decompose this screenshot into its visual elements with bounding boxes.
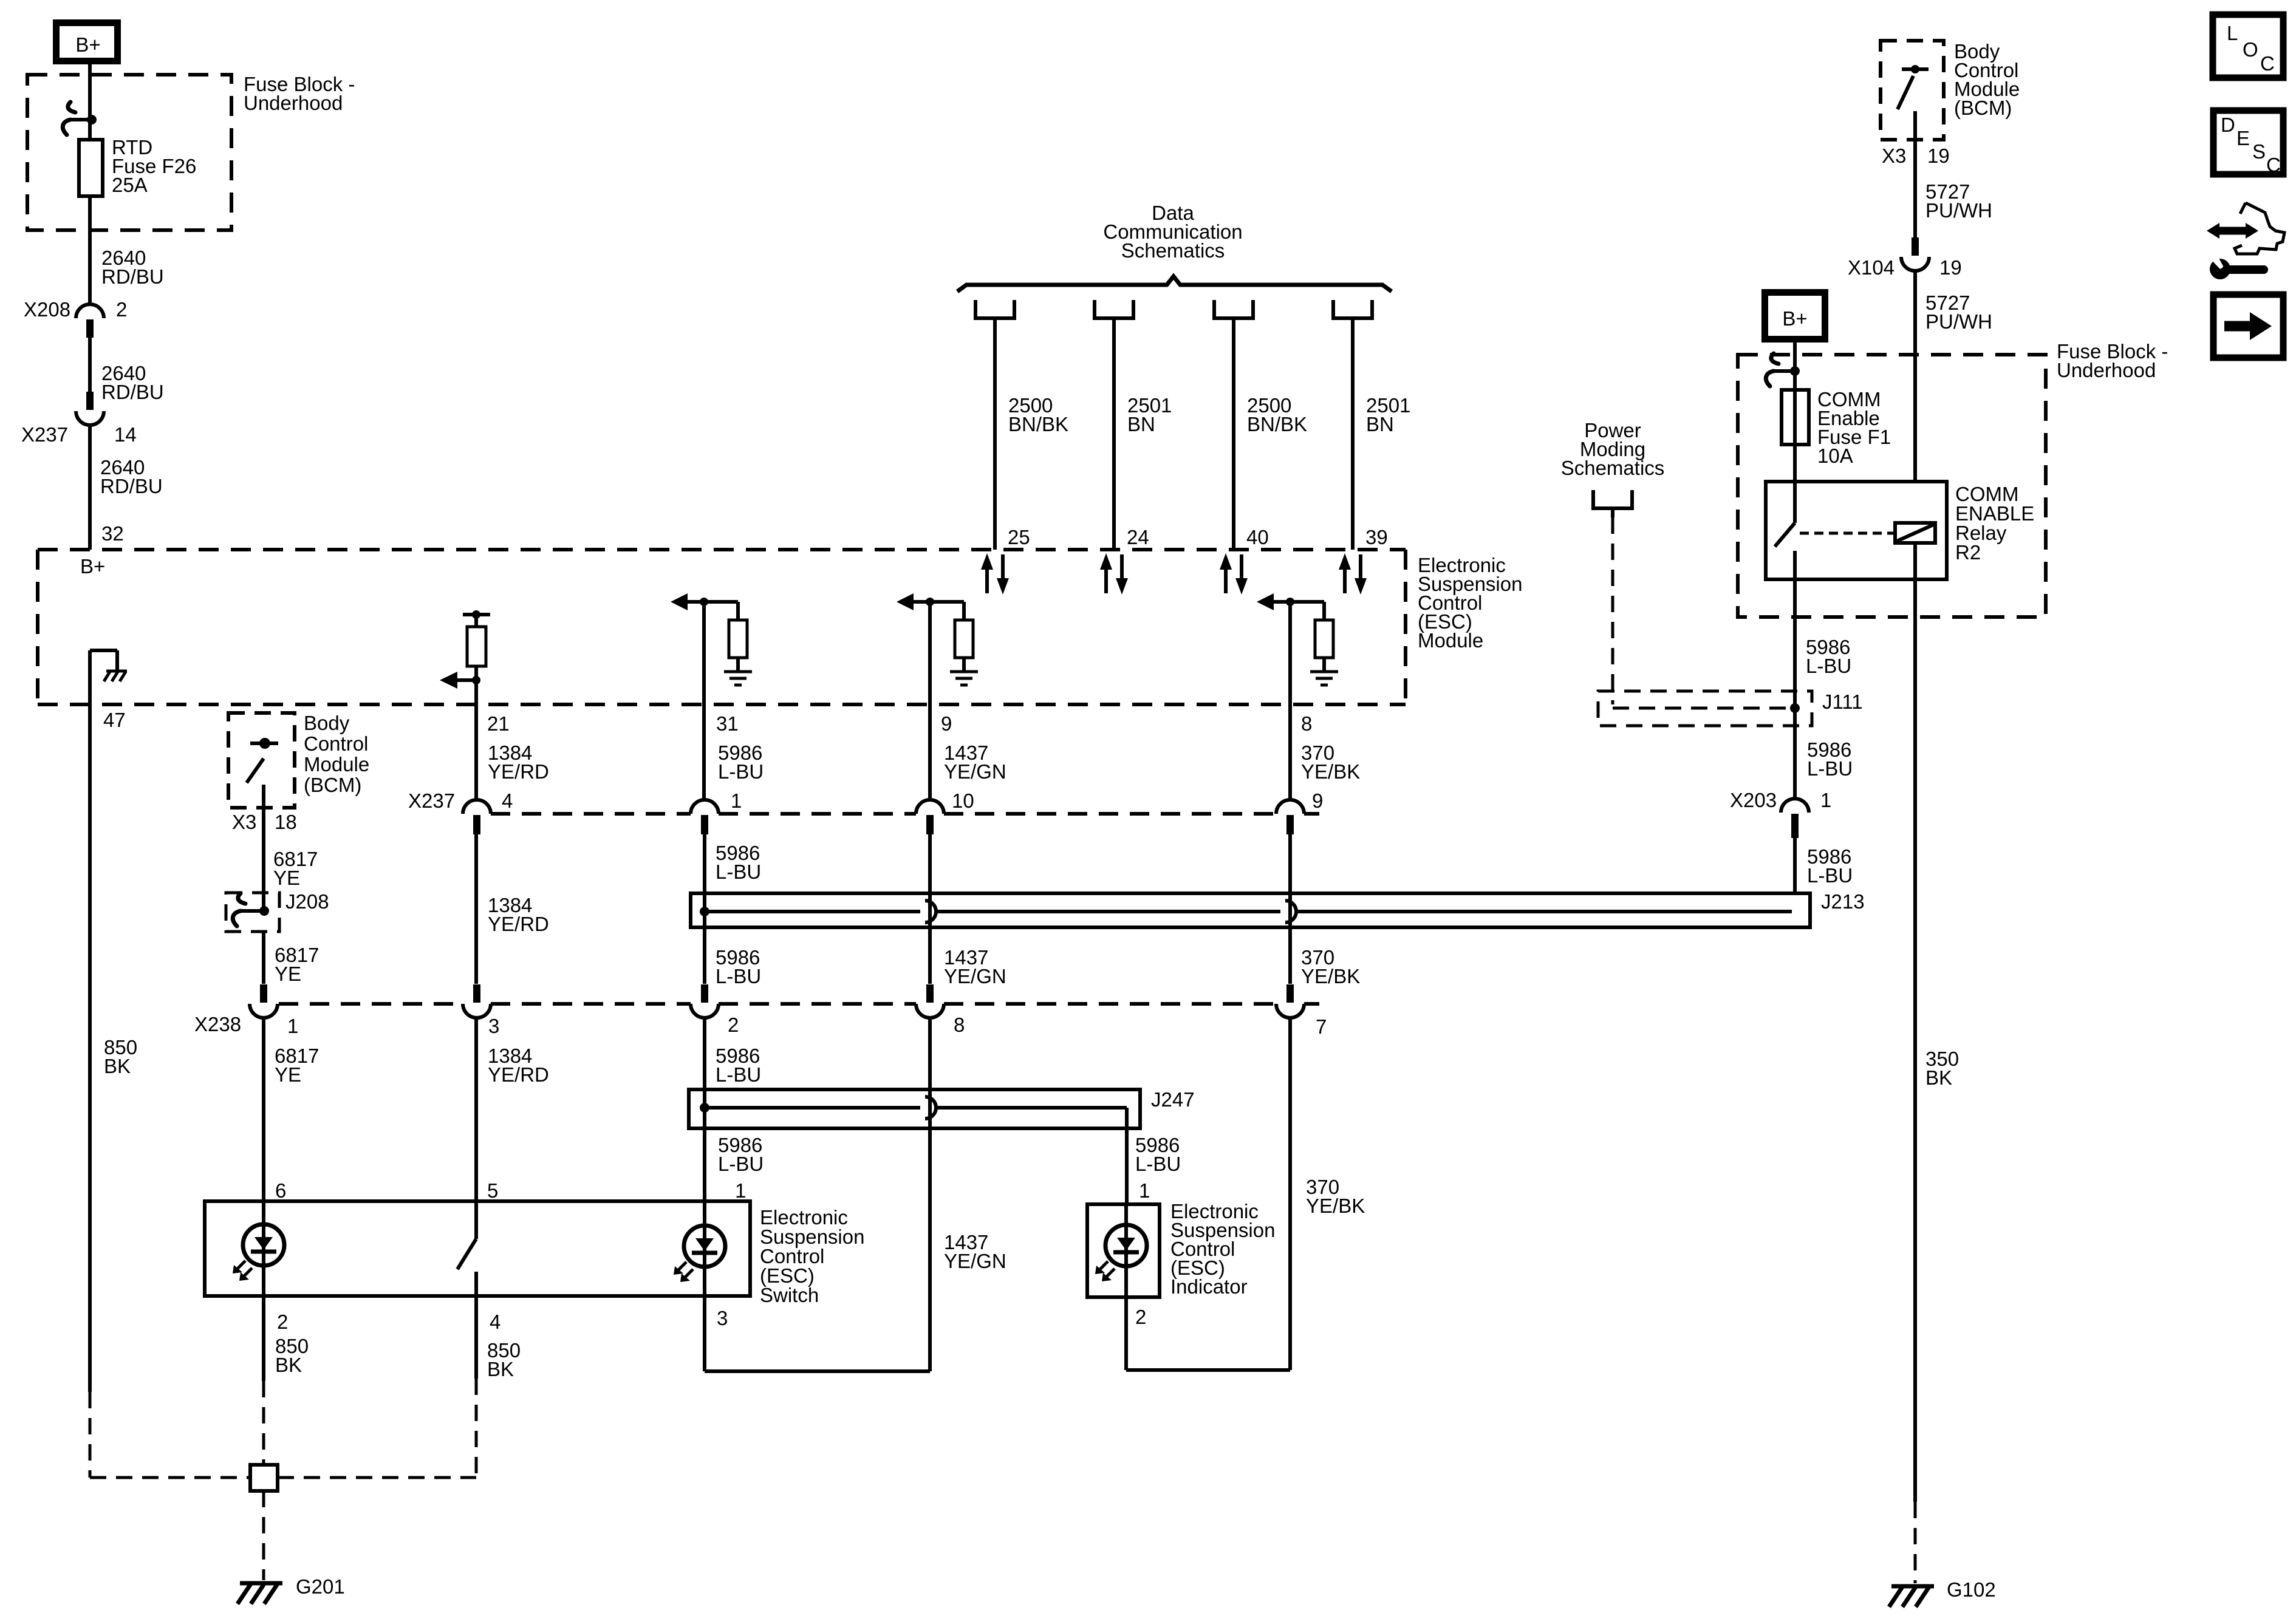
svg-text:4: 4 xyxy=(502,789,513,812)
svg-text:BN/BK: BN/BK xyxy=(1008,413,1068,435)
svg-text:D: D xyxy=(2221,114,2235,136)
svg-text:40: 40 xyxy=(1246,526,1269,548)
svg-text:4: 4 xyxy=(490,1311,501,1333)
dashed wire power moding to J111 xyxy=(1613,517,1786,708)
off-page connector serial data 39 xyxy=(1333,300,1372,318)
wire 1437 YE/GN pin 9 to X237-10 xyxy=(930,602,1006,800)
svg-text:8: 8 xyxy=(954,1014,965,1036)
svg-text:Control: Control xyxy=(304,732,368,755)
svg-text:YE/GN: YE/GN xyxy=(944,965,1006,987)
svg-text:47: 47 xyxy=(103,709,126,731)
connector X203 pin 1 xyxy=(1730,789,1831,838)
svg-text:2: 2 xyxy=(277,1311,288,1333)
off-page connector serial data 24 xyxy=(1095,300,1133,318)
fusible link feed at fuse F1 xyxy=(1766,353,1800,386)
svg-text:14: 14 xyxy=(114,423,137,446)
svg-text:9: 9 xyxy=(941,712,952,735)
svg-text:L-BU: L-BU xyxy=(1135,1153,1181,1175)
connector row X238 dashed xyxy=(279,1002,1319,1006)
svg-text:C: C xyxy=(2266,154,2281,176)
data communication schematics label xyxy=(1103,202,1242,262)
svg-text:2: 2 xyxy=(728,1014,739,1036)
svg-text:BK: BK xyxy=(1925,1066,1952,1089)
switch contact xyxy=(457,1201,476,1296)
svg-text:Schematics: Schematics xyxy=(1561,457,1665,479)
svg-text:BK: BK xyxy=(487,1358,514,1380)
wire 850 BK module pin 47 to splice xyxy=(90,650,250,1478)
svg-text:X238: X238 xyxy=(194,1013,241,1035)
svg-text:X3: X3 xyxy=(232,811,256,833)
brace xyxy=(957,276,1392,291)
svg-text:RD/BU: RD/BU xyxy=(101,381,164,403)
svg-text:YE/RD: YE/RD xyxy=(488,760,549,783)
svg-text:(BCM): (BCM) xyxy=(304,774,361,796)
B+ power symbol (right) xyxy=(1765,293,1825,339)
body control module box left (dashed) xyxy=(228,713,295,808)
svg-text:18: 18 xyxy=(275,811,297,833)
driver group pin 31 xyxy=(671,593,752,685)
svg-text:X237: X237 xyxy=(21,423,68,446)
ESC indicator label xyxy=(1170,1200,1275,1298)
svg-text:Indicator: Indicator xyxy=(1170,1275,1248,1298)
serial data arrows pin 25 xyxy=(981,553,1009,595)
wire 2501 BN to pin 24 xyxy=(1114,318,1172,550)
wire 6817 YE J208 to X238-1 xyxy=(264,932,319,985)
svg-text:25A: 25A xyxy=(112,174,148,196)
svg-text:(BCM): (BCM) xyxy=(1954,97,2012,119)
svg-text:24: 24 xyxy=(1127,526,1149,548)
wire 6817 YE X238-1 to switch pin 6 xyxy=(264,1018,319,1202)
BCM right label xyxy=(1954,40,2020,119)
svg-text:L-BU: L-BU xyxy=(716,1063,761,1086)
svg-text:L-BU: L-BU xyxy=(1807,757,1853,780)
svg-text:L-BU: L-BU xyxy=(1807,864,1853,887)
fuse RTD F26 25A xyxy=(79,140,103,196)
svg-text:YE/BK: YE/BK xyxy=(1301,760,1360,783)
svg-text:L-BU: L-BU xyxy=(716,861,761,883)
svg-text:5: 5 xyxy=(487,1179,498,1202)
svg-text:BK: BK xyxy=(275,1354,302,1376)
icon wrench xyxy=(2206,250,2264,279)
relay R2 box xyxy=(1766,482,1947,579)
svg-text:X104: X104 xyxy=(1848,256,1895,279)
J247 label xyxy=(1151,1088,1195,1111)
svg-text:X3: X3 xyxy=(1882,145,1906,167)
fusible link feed at fuse F26 xyxy=(63,102,97,135)
svg-text:YE/RD: YE/RD xyxy=(488,913,549,935)
svg-text:YE/BK: YE/BK xyxy=(1306,1195,1365,1217)
driver group pin 8 xyxy=(1257,593,1338,685)
svg-text:Switch: Switch xyxy=(760,1284,819,1306)
svg-text:32: 32 xyxy=(101,522,124,545)
svg-text:YE: YE xyxy=(275,963,301,985)
icon DESC box xyxy=(2213,111,2283,176)
svg-text:1: 1 xyxy=(287,1015,298,1037)
svg-text:Body: Body xyxy=(304,712,350,734)
ground G201 xyxy=(237,1575,345,1604)
wire 5986 L-BU pin 31 to X237-1 xyxy=(704,602,764,800)
wire 2501 BN to pin 39 xyxy=(1353,318,1410,550)
svg-text:L-BU: L-BU xyxy=(718,1153,764,1175)
svg-text:B+: B+ xyxy=(1782,307,1807,330)
svg-text:G102: G102 xyxy=(1947,1578,1996,1601)
svg-text:3: 3 xyxy=(717,1307,728,1329)
svg-text:Module: Module xyxy=(304,753,369,776)
wire 1384 YE/RD X238-3 to switch pin 5 xyxy=(476,1018,549,1202)
svg-text:C: C xyxy=(2260,52,2275,75)
icon forward arrow box xyxy=(2213,295,2283,358)
wire 5986 L-BU relay to J111 xyxy=(1795,579,1851,708)
svg-text:2: 2 xyxy=(116,298,127,321)
svg-text:PU/WH: PU/WH xyxy=(1925,199,1992,222)
wire 350 BK coil to ground G102 xyxy=(1915,579,1959,1583)
wire 1437 YE/GN X238-8 to switch pin 3 xyxy=(705,1018,1006,1371)
wire 2500 BN/BK to pin 25 xyxy=(995,318,1068,550)
svg-text:10A: 10A xyxy=(1817,445,1853,467)
ESC switch label xyxy=(760,1206,864,1306)
svg-text:J213: J213 xyxy=(1821,890,1865,913)
ESC module label xyxy=(1418,554,1522,652)
fuse block underhood box (right, dashed) xyxy=(1738,355,2046,617)
connector X237 pin 4 xyxy=(408,789,513,834)
wire 2640 RD/BU segment 2 xyxy=(90,338,164,403)
off-page connector power moding xyxy=(1593,490,1632,517)
svg-text:BN: BN xyxy=(1127,413,1155,435)
wire to ground G201 xyxy=(262,1491,265,1580)
connector X238 pin 7 xyxy=(1276,984,1327,1038)
connector X208 pin 2 xyxy=(24,298,127,338)
svg-text:1: 1 xyxy=(731,789,742,812)
svg-text:X237: X237 xyxy=(408,789,455,812)
svg-text:21: 21 xyxy=(487,712,510,735)
svg-text:10: 10 xyxy=(952,789,974,812)
J111 label xyxy=(1822,690,1863,713)
svg-text:6: 6 xyxy=(275,1179,286,1202)
wire 1384 YE/RD X237-4 to X238-3 xyxy=(476,834,549,984)
fuse block label xyxy=(244,73,355,114)
indicator LED xyxy=(1095,1204,1147,1297)
wire 5986 L-BU J247 to indicator pin 1 xyxy=(1127,1108,1181,1204)
splice J213 xyxy=(691,893,1810,927)
fuse block underhood box (left, dashed) xyxy=(27,75,231,230)
svg-text:O: O xyxy=(2243,38,2258,61)
wire 370 YE/BK indicator pin 2 to X238-7 xyxy=(1126,1018,1365,1370)
svg-text:19: 19 xyxy=(1939,256,1962,279)
wire fuse F1 to relay xyxy=(1793,390,1797,482)
wire 5986 L-BU J111 to X203 xyxy=(1795,708,1853,799)
svg-text:J208: J208 xyxy=(285,890,329,913)
wire B+ to fuse RTD xyxy=(88,64,92,140)
svg-text:1: 1 xyxy=(735,1179,746,1202)
serial data arrows pin 40 xyxy=(1220,553,1248,595)
ESC module box (dashed) xyxy=(38,550,1406,704)
wire 5986 L-BU X203 to J213 xyxy=(1795,838,1853,893)
off-page connector serial data 40 xyxy=(1214,300,1253,318)
splice junction square xyxy=(250,1465,278,1491)
wire 5727 PU/WH X3-19 to X104 xyxy=(1882,140,1992,237)
wire 5986 L-BU X237-1 through J213 to X238-2 xyxy=(705,834,761,987)
svg-text:8: 8 xyxy=(1301,712,1312,735)
svg-text:RD/BU: RD/BU xyxy=(100,475,163,497)
wire 370 YE/BK pin 8 to X237-9 xyxy=(1290,602,1360,800)
connector X237 pin 1 xyxy=(691,789,742,834)
wire 850 BK switch pin 4 to splice xyxy=(278,1296,521,1478)
fuse COMM Enable F1 10A xyxy=(1782,390,1809,445)
connector X237 pin 14 xyxy=(21,392,137,446)
connector X237 pin 9 xyxy=(1276,789,1323,834)
svg-text:B+: B+ xyxy=(80,555,105,578)
svg-text:BK: BK xyxy=(104,1055,131,1077)
J208 label xyxy=(285,890,329,913)
wire 6817 YE X3-18 to J208 xyxy=(232,808,318,910)
J213 label xyxy=(1821,890,1865,913)
svg-text:9: 9 xyxy=(1312,789,1323,812)
svg-text:S: S xyxy=(2252,140,2266,163)
fuse RTD label xyxy=(112,136,196,196)
node B+ inside module xyxy=(80,555,105,578)
svg-text:1: 1 xyxy=(1820,789,1831,811)
driver group pin 21 (resistor to B+, output arrow) xyxy=(440,610,490,689)
svg-text:B+: B+ xyxy=(75,33,100,56)
icon LOC box xyxy=(2213,15,2283,78)
wire 2640 RD/BU segment 1 xyxy=(90,196,164,305)
svg-text:19: 19 xyxy=(1927,145,1950,167)
svg-text:YE/BK: YE/BK xyxy=(1301,965,1360,987)
svg-text:PU/WH: PU/WH xyxy=(1925,310,1992,333)
power moding schematics label xyxy=(1561,419,1665,479)
svg-text:3: 3 xyxy=(488,1015,499,1037)
backlight LED in switch xyxy=(233,1201,284,1296)
relay coil xyxy=(1895,523,1935,579)
svg-text:YE/RD: YE/RD xyxy=(488,1063,549,1086)
svg-text:E: E xyxy=(2236,127,2250,149)
connector X237 pin 10 xyxy=(916,789,974,834)
svg-text:Underhood: Underhood xyxy=(2057,359,2156,381)
ESC indicator LED in switch xyxy=(674,1201,725,1296)
svg-text:YE: YE xyxy=(275,1063,301,1086)
relay actuation dashed link xyxy=(1800,532,1893,535)
svg-text:X203: X203 xyxy=(1730,789,1777,811)
connector X238 pin 8 xyxy=(916,984,965,1036)
fuse block right label xyxy=(2057,340,2168,381)
svg-text:L: L xyxy=(2227,22,2238,44)
ESC switch box xyxy=(205,1201,750,1296)
svg-text:BN/BK: BN/BK xyxy=(1247,413,1307,435)
svg-text:YE/GN: YE/GN xyxy=(944,1250,1006,1272)
ground G102 xyxy=(1889,1578,1996,1607)
svg-text:Schematics: Schematics xyxy=(1121,239,1225,262)
relay R2 label xyxy=(1955,483,2034,564)
fuse F1 label xyxy=(1817,388,1891,467)
relay switch contact xyxy=(1775,482,1795,579)
connector X238 pin 2 xyxy=(691,984,739,1036)
driver group pin 9 xyxy=(897,593,978,685)
svg-text:J247: J247 xyxy=(1151,1088,1195,1111)
svg-text:25: 25 xyxy=(1008,526,1030,548)
svg-text:2: 2 xyxy=(1135,1306,1146,1328)
wire 370 YE/BK X237-9 to X238-7 xyxy=(1290,834,1360,987)
svg-text:31: 31 xyxy=(716,712,739,735)
wire 2500 BN/BK to pin 40 xyxy=(1234,318,1307,550)
icon vehicle with double arrow xyxy=(2207,203,2284,254)
svg-text:G201: G201 xyxy=(296,1575,345,1598)
serial data arrows pin 24 xyxy=(1100,553,1128,595)
serial data arrows pin 39 xyxy=(1339,553,1367,595)
svg-text:L-BU: L-BU xyxy=(718,760,764,783)
wire 850 BK switch pin 2 to splice xyxy=(264,1296,309,1465)
connector X238 pin 3 xyxy=(463,984,499,1037)
splice J208 xyxy=(226,893,279,932)
svg-text:7: 7 xyxy=(1316,1015,1327,1038)
connector X238 pin 1 xyxy=(194,984,298,1037)
svg-text:L-BU: L-BU xyxy=(716,965,761,987)
svg-text:L-BU: L-BU xyxy=(1806,655,1851,677)
wire 2640 RD/BU segment 3 xyxy=(90,425,163,550)
svg-text:39: 39 xyxy=(1365,526,1388,548)
BCM left label xyxy=(304,712,369,796)
BCM left internal switch xyxy=(247,738,278,808)
connector row X237 dashed xyxy=(491,812,1319,816)
svg-text:Module: Module xyxy=(1418,629,1483,652)
body control module box right (dashed) xyxy=(1881,41,1944,140)
svg-text:RD/BU: RD/BU xyxy=(101,265,164,288)
ESC indicator box xyxy=(1087,1204,1160,1297)
wire 1384 YE/RD pin 21 to X237-4 xyxy=(476,680,549,800)
B+ power symbol (top left) xyxy=(56,23,118,61)
svg-text:YE/GN: YE/GN xyxy=(944,760,1006,783)
BCM right internal switch xyxy=(1898,65,1929,140)
connection box J111 (dashed) xyxy=(1598,691,1812,726)
svg-text:YE: YE xyxy=(273,867,300,889)
svg-text:BN: BN xyxy=(1366,413,1394,435)
wire 5727 PU/WH X104 to relay coil xyxy=(1915,271,1992,482)
connector X104 pin 19 xyxy=(1848,237,1962,279)
svg-text:J111: J111 xyxy=(1822,690,1863,713)
internal ground branch of pin 47 xyxy=(90,650,127,681)
wire 1437 YE/GN X237-10 to X238-8 xyxy=(930,834,1006,987)
svg-text:R2: R2 xyxy=(1955,541,1981,564)
svg-text:X208: X208 xyxy=(24,298,70,321)
svg-text:Underhood: Underhood xyxy=(244,92,343,114)
splice J247 xyxy=(689,1089,1140,1128)
wire B+ to fuse F1 xyxy=(1793,343,1797,390)
wire 5986 L-BU X238-2 through J247 to switch pin 1 xyxy=(705,1018,764,1202)
svg-text:1: 1 xyxy=(1139,1179,1150,1202)
off-page connector serial data 25 xyxy=(975,300,1014,318)
